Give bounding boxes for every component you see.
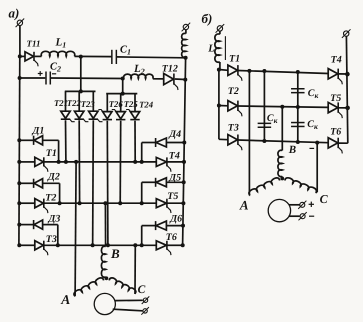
wire anode drop: [120, 94, 122, 112]
node L1/C1/T21-group: [79, 55, 83, 59]
wire T22 anode: [78, 91, 80, 111]
node T21-group feed: [79, 89, 83, 93]
diode D2: [34, 179, 43, 188]
node capBC/row3: [296, 140, 300, 144]
wire bus to T1: [19, 161, 35, 163]
inductor L2: [124, 74, 153, 78]
node right bus / T12 row: [183, 78, 187, 82]
wire anode drop: [134, 94, 136, 112]
thyristor T3 (b): [228, 135, 242, 151]
svg-text:Т25: Т25: [124, 99, 139, 109]
wire slip ring 2 (b): [289, 215, 300, 217]
wire C2 to L2 node: [50, 77, 122, 80]
node T24-group feed: [121, 92, 125, 96]
svg-text:С: С: [138, 284, 146, 296]
svg-text:Д4: Д4: [168, 129, 181, 140]
node bus/T5: [181, 201, 185, 205]
svg-text:Т11: Т11: [27, 39, 41, 49]
wire bracket to D5: [142, 181, 156, 183]
wire anode drop: [106, 94, 108, 112]
svg-text:Т22: Т22: [67, 98, 82, 108]
wire bus to D2: [19, 182, 33, 184]
node bus/D4: [182, 141, 186, 145]
terminal excitation + (b): [298, 201, 306, 209]
wire L1 to node: [75, 55, 112, 57]
wire node to T24-group bus: [122, 79, 124, 94]
wire T24 to phase A: [134, 121, 136, 162]
thyristor T6 (b): [328, 138, 342, 154]
wire phase C lead (b): [316, 143, 318, 192]
svg-text:Т12: Т12: [162, 64, 178, 75]
svg-text:б): б): [202, 11, 213, 26]
commutation thyristor T24: [126, 110, 140, 120]
thyristor T2: [35, 199, 48, 214]
node T24/phase A: [133, 160, 137, 164]
wire D5 to right bus: [166, 181, 183, 183]
terminal DC- (a): [182, 23, 191, 32]
node T26/phase C: [106, 243, 110, 247]
wire T25 to phase B: [119, 121, 122, 204]
svg-text:В: В: [288, 144, 296, 156]
node bracket/T6 row: [140, 243, 144, 247]
svg-text:Т6: Т6: [330, 127, 341, 138]
thyristor T5 (b): [328, 102, 342, 118]
node top right (a): [184, 56, 188, 60]
diode D6: [156, 221, 167, 230]
commutation thyristor T21: [61, 111, 75, 122]
terminal DC- (b): [342, 29, 351, 38]
node left bus / C2 row: [18, 76, 22, 80]
node left bus row2 (b): [217, 104, 221, 108]
node phase A tap: [74, 160, 78, 164]
wire T4 to right bus: [338, 73, 347, 75]
wire bracket to D6: [142, 225, 156, 227]
svg-text:Т4: Т4: [331, 55, 342, 66]
svg-text:Д1: Д1: [32, 126, 45, 137]
capacitor Ck (A-B): [291, 89, 305, 93]
node capAB/row1: [296, 70, 300, 74]
wire phase C row: [44, 244, 156, 246]
terminal DC+ (b): [216, 24, 225, 33]
node phase A tap (b): [247, 69, 251, 73]
node bracket/T1 row: [57, 160, 61, 164]
node capAC/row3: [262, 139, 266, 143]
wire T5 to right bus: [167, 202, 183, 204]
wire D3 to bracket: [42, 224, 57, 226]
node bracket/T3 row: [56, 243, 60, 247]
wire slip ring 2 (a): [113, 309, 143, 311]
stator winding B (b): [278, 150, 282, 176]
wire bus to T2: [19, 202, 35, 204]
node bus/T6: [181, 243, 185, 247]
wire phase A lead (b): [248, 71, 250, 196]
svg-text:Т4: Т4: [169, 150, 180, 161]
wire winding A end (b): [248, 194, 251, 196]
capacitor Ck (B-C): [291, 123, 305, 127]
thyristor T6: [156, 241, 171, 255]
wire T12 to right bus: [175, 78, 186, 81]
inductor L1: [41, 51, 75, 56]
stator winding B (a): [101, 246, 105, 277]
wire T26 to phase C: [106, 121, 109, 246]
wire bus to C2: [20, 77, 46, 79]
svg-text:Д2: Д2: [47, 171, 60, 182]
svg-text:С: С: [320, 192, 329, 206]
svg-text:Т2: Т2: [228, 86, 239, 97]
node bus/D3: [17, 223, 21, 227]
node T22/phase B: [78, 201, 82, 205]
node bus/T2: [17, 201, 21, 205]
wire T21 anode: [65, 91, 67, 111]
svg-text:Т3: Т3: [46, 234, 57, 245]
svg-text:Д3: Д3: [48, 214, 61, 225]
wire T21-group anode bus: [65, 90, 96, 92]
wire T22 to phase B: [78, 120, 80, 203]
wire bracket to D4: [142, 142, 156, 144]
input choke (a): [182, 33, 186, 57]
wire phase A row: [44, 161, 156, 163]
wire cap line A-C (b): [263, 71, 265, 141]
polarity - excitation (b): [309, 215, 314, 217]
svg-text:Т23: Т23: [81, 99, 96, 109]
wire bus to T2 (b): [219, 105, 228, 107]
node phase B tap (b): [280, 105, 284, 109]
wire phase A to winding A: [75, 162, 76, 296]
wire D1 to bracket: [42, 139, 58, 141]
node T23/phase C: [91, 243, 95, 247]
node bus/T3: [17, 243, 21, 247]
svg-text:Т1: Т1: [229, 54, 240, 65]
node bus/D6: [181, 224, 185, 228]
thyristor T11: [25, 52, 38, 67]
svg-text:А: А: [239, 198, 249, 213]
terminal excitation 2 (a): [141, 307, 149, 315]
diode D1: [34, 136, 43, 145]
wire T6 to right bus: [167, 244, 183, 246]
node phase C tap (b): [315, 141, 319, 145]
wire slip ring 1 (b): [289, 204, 300, 206]
node bus/D1: [17, 138, 21, 142]
wire bracket D5: [141, 182, 143, 203]
wire T21 to phase A: [65, 120, 67, 162]
svg-text:Т2: Т2: [45, 192, 56, 203]
wire bracket D6: [141, 226, 143, 246]
wire bus to T11: [19, 55, 25, 57]
wire winding C end (b): [316, 191, 318, 194]
node C2/L2/T24-group: [121, 77, 125, 81]
wire phase B row (b): [238, 106, 328, 107]
choke L (b): [215, 34, 220, 62]
node bracket/T2 row: [58, 201, 62, 205]
commutation thyristor T23: [89, 111, 103, 122]
wire T4 to right bus: [167, 161, 184, 163]
node phase B tap: [103, 201, 107, 205]
svg-text:В: В: [110, 246, 120, 261]
wire bracket D4: [141, 143, 143, 162]
terminal excitation 1 (a): [142, 296, 150, 304]
wire D6 to right bus: [166, 225, 183, 227]
wire D4 to right bus: [166, 142, 184, 144]
wire terminal to L (b): [219, 31, 221, 34]
node bus/D2: [17, 181, 21, 185]
wire phase B lead (b): [281, 107, 283, 151]
thyristor T4: [156, 157, 171, 171]
node capAC/row1: [262, 69, 266, 73]
wire cap line A-B-C (b): [297, 72, 299, 142]
thyristor T12: [164, 74, 178, 91]
wire T23 to phase C: [92, 120, 95, 245]
node right bus row2 (b): [345, 106, 350, 111]
wire left bus (a): [18, 56, 21, 245]
polarity + excitation (b): [309, 202, 314, 207]
node phase C tap: [133, 243, 137, 247]
commutation thyristor T26: [98, 110, 112, 120]
wire core of L (b): [224, 36, 226, 60]
svg-text:Т3: Т3: [228, 122, 239, 133]
svg-text:Т6: Т6: [166, 232, 177, 243]
wire left bus (b): [218, 70, 220, 140]
polarity + of C2: [38, 71, 43, 76]
commutation thyristor T25: [112, 110, 126, 120]
svg-text:Т1: Т1: [46, 148, 57, 159]
commutation thyristor T22: [75, 111, 89, 122]
node bus/T1: [17, 160, 21, 164]
wire D2 to bracket: [42, 182, 59, 184]
svg-text:Т24: Т24: [139, 99, 154, 109]
node bus/T4: [182, 160, 186, 164]
wire phase A row (b): [238, 71, 328, 74]
thyristor T5: [156, 199, 171, 213]
thyristor T4 (b): [328, 69, 342, 85]
wire bracket D2-T2: [59, 183, 61, 203]
wire winding B to star: [105, 277, 108, 278]
wire bus to T1 (b): [219, 69, 228, 72]
capacitor C1: [112, 50, 117, 64]
thyristor T3: [35, 241, 48, 256]
svg-text:Д6: Д6: [169, 214, 182, 225]
wire L to bus (b): [219, 62, 221, 70]
diode D4: [156, 138, 167, 147]
wire L2 to T12: [153, 78, 164, 80]
terminal excitation - (b): [299, 212, 307, 220]
node left bus / T11 row: [18, 54, 22, 58]
stator winding C (b): [285, 178, 316, 193]
wire winding B to star (b): [281, 176, 283, 178]
wire T24-group anode bus: [106, 93, 137, 95]
wire bus to T3 (b): [219, 138, 228, 140]
svg-text:а): а): [9, 6, 20, 21]
stator winding A (a): [74, 278, 104, 296]
wire phase C to winding C: [134, 245, 136, 294]
wire bracket D1-T1: [58, 140, 60, 162]
svg-text:Т5: Т5: [167, 191, 178, 202]
machine M (b): [268, 199, 290, 221]
thyristor T1 (b): [228, 65, 242, 81]
wire phase C row (b): [238, 140, 328, 143]
machine M (a): [94, 293, 115, 314]
wire T6 to right bus: [338, 142, 347, 144]
thyristor T2 (b): [228, 101, 242, 117]
node bracket/T5 row: [140, 201, 144, 205]
wire right bus (a): [183, 58, 186, 246]
wire T5 to right bus: [338, 107, 347, 109]
svg-text:Т26: Т26: [109, 99, 124, 109]
node star point (a): [105, 276, 109, 280]
polarity - of C2: [52, 73, 56, 75]
node right bus row1 (b): [345, 72, 350, 77]
wire bus to D3: [19, 224, 33, 226]
node bracket/T4 row: [140, 160, 144, 164]
node left bus top (b): [217, 68, 221, 72]
polarity - (b): [310, 147, 315, 149]
wire bus to T3: [19, 244, 35, 246]
wire T11 to L1: [35, 55, 42, 57]
diode D3: [34, 220, 43, 229]
node T25/phase B: [118, 201, 122, 205]
node T21/phase A: [64, 160, 68, 164]
node bus/D5: [182, 180, 186, 184]
svg-text:L: L: [207, 44, 214, 55]
wire phase B row: [44, 202, 156, 204]
capacitor Ck (A-C): [258, 123, 272, 127]
wire T23 anode: [92, 91, 94, 111]
thyristor T1: [35, 157, 48, 172]
terminal DC+ (a): [16, 19, 25, 28]
svg-text:А: А: [60, 292, 70, 307]
node star point (b): [280, 177, 284, 181]
stator winding C (a): [109, 278, 136, 294]
stator winding A (b): [249, 178, 280, 195]
wire slip ring 1 (a): [115, 299, 143, 301]
wire terminal to bus (a): [19, 26, 21, 56]
wire right bus (b): [346, 36, 347, 143]
svg-text:Т5: Т5: [330, 93, 341, 104]
capacitor C2: [46, 72, 50, 85]
wire terminal to choke (a): [185, 30, 187, 34]
wire bus to D1: [19, 139, 33, 141]
diode D5: [156, 178, 167, 187]
wire bracket D3-T3: [57, 225, 59, 246]
wire node to T21-group bus: [80, 57, 82, 92]
wire phase B to winding B: [104, 203, 106, 246]
wire C1 to right bus: [116, 56, 185, 59]
node capAB/row2: [296, 105, 300, 109]
